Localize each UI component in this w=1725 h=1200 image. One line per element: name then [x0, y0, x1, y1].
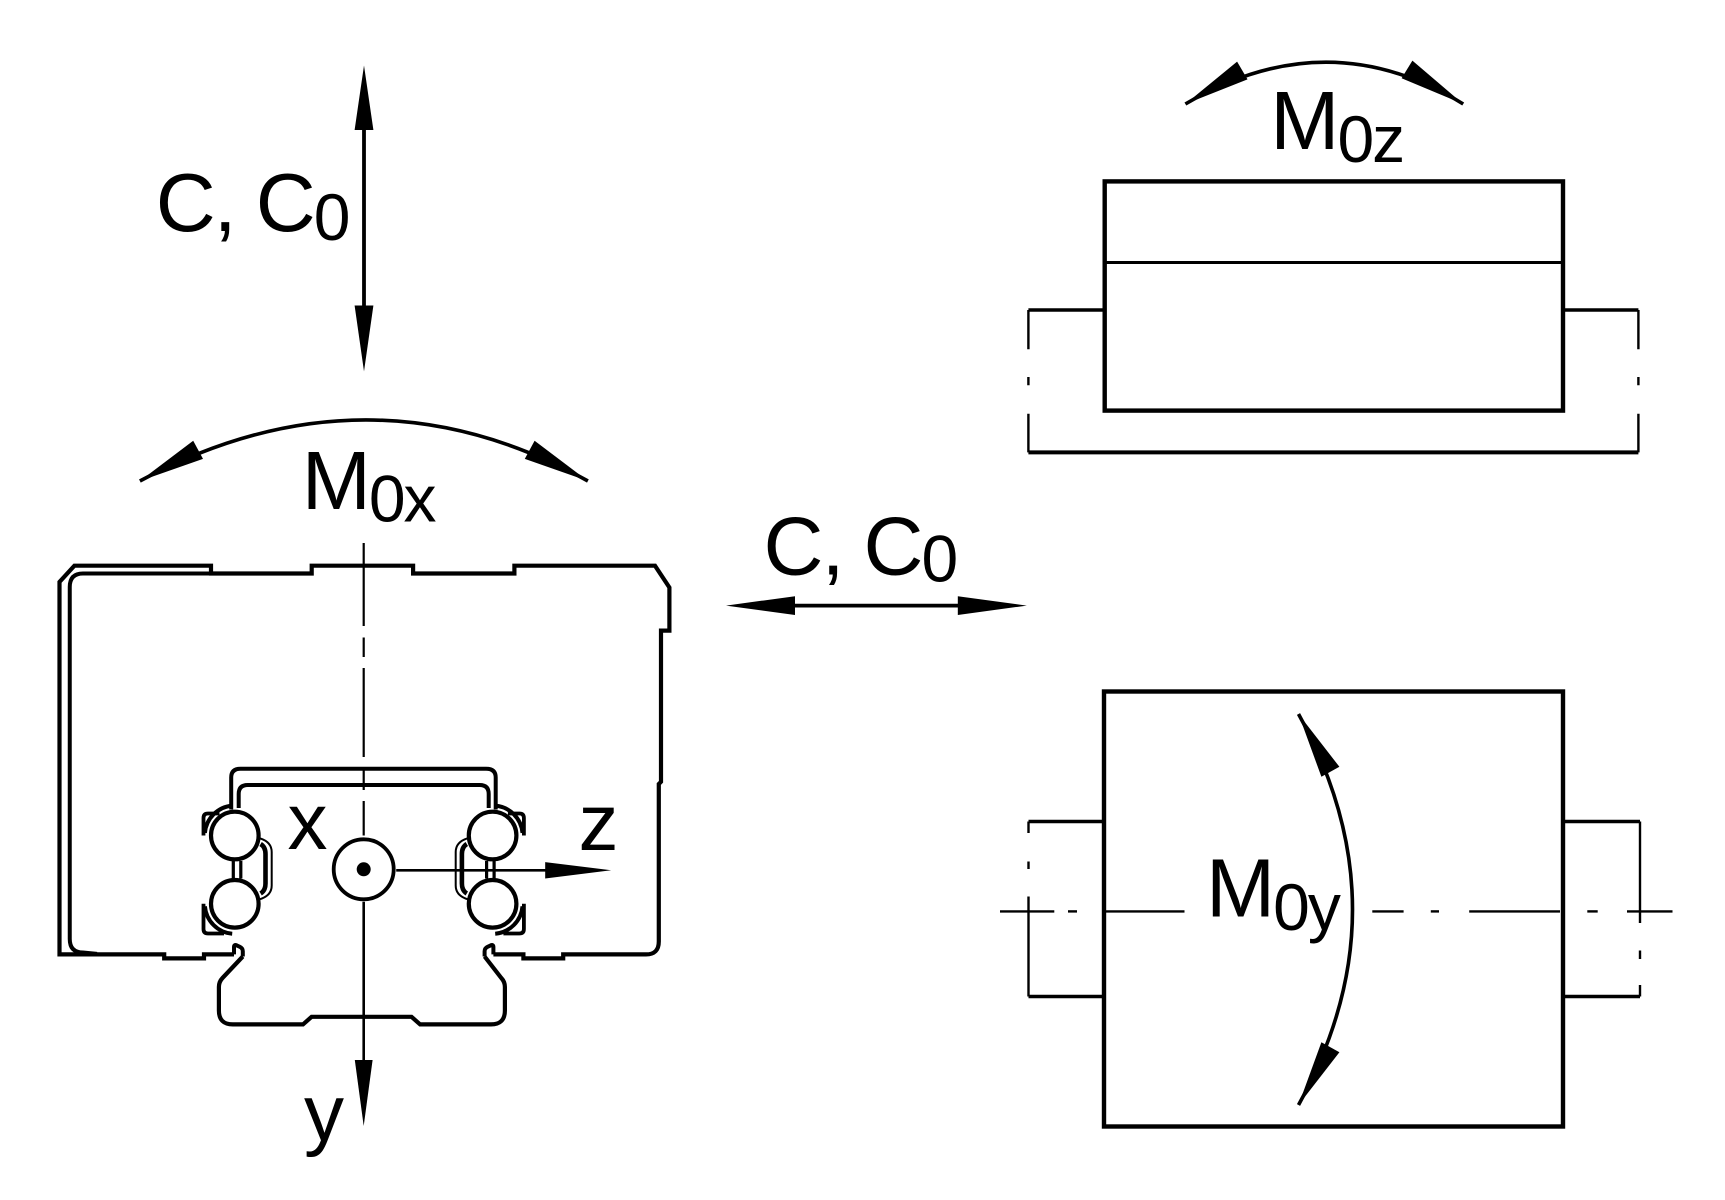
race arc upper-right ball — [495, 806, 522, 833]
rail stub left — [1029, 822, 1105, 997]
rail groove land left thick — [261, 844, 266, 894]
ball upper-right — [469, 812, 517, 860]
race arc lower-left ball — [205, 906, 232, 933]
ball neck right column — [487, 861, 495, 879]
carriage leg hook left — [234, 945, 243, 956]
carriage block side elevation — [1105, 181, 1563, 410]
race pocket lower-left — [204, 904, 225, 934]
y-axis — [355, 902, 373, 1126]
vertical centerline — [363, 543, 365, 836]
rail lower profile — [219, 957, 505, 1025]
ball lower-left — [211, 880, 259, 928]
race pocket upper-right — [508, 814, 524, 836]
race arc upper-left ball — [205, 806, 232, 833]
rail head top inner line — [239, 785, 489, 808]
carriage block plan view — [1104, 692, 1563, 1127]
moment arc M0x — [140, 420, 588, 481]
rail side elevation top-right — [1028, 310, 1638, 452]
ball upper-left — [211, 812, 259, 860]
carriage outline — [60, 566, 670, 959]
origin symbol (x-axis out of plane) — [334, 839, 394, 899]
rail centerline horizontal — [1000, 910, 1673, 912]
arrow C,C0 vertical double arrow — [355, 66, 374, 372]
moment arc M0z — [1185, 61, 1463, 104]
carriage leg hook right — [485, 945, 494, 956]
ball neck left column — [233, 861, 241, 879]
moment arc M0y — [1299, 714, 1353, 1105]
carriage block parting line — [1105, 261, 1563, 264]
z-axis — [396, 862, 611, 878]
rail stub right — [1563, 822, 1640, 997]
rail head top outer line — [231, 769, 496, 810]
svg-text:x: x — [288, 777, 328, 866]
carriage seal inner line — [70, 574, 211, 954]
svg-text:y: y — [304, 1069, 344, 1158]
ball lower-right — [469, 880, 517, 928]
rail groove land right outline — [456, 838, 468, 899]
arrow C,C0 horizontal double arrow — [726, 596, 1027, 615]
rail groove land left outline — [260, 838, 272, 899]
race pocket upper-left — [204, 814, 220, 836]
race arc lower-right ball — [495, 906, 522, 933]
svg-text:z: z — [579, 778, 619, 867]
race pocket lower-right — [503, 904, 524, 934]
rail groove land right thick — [462, 844, 467, 894]
